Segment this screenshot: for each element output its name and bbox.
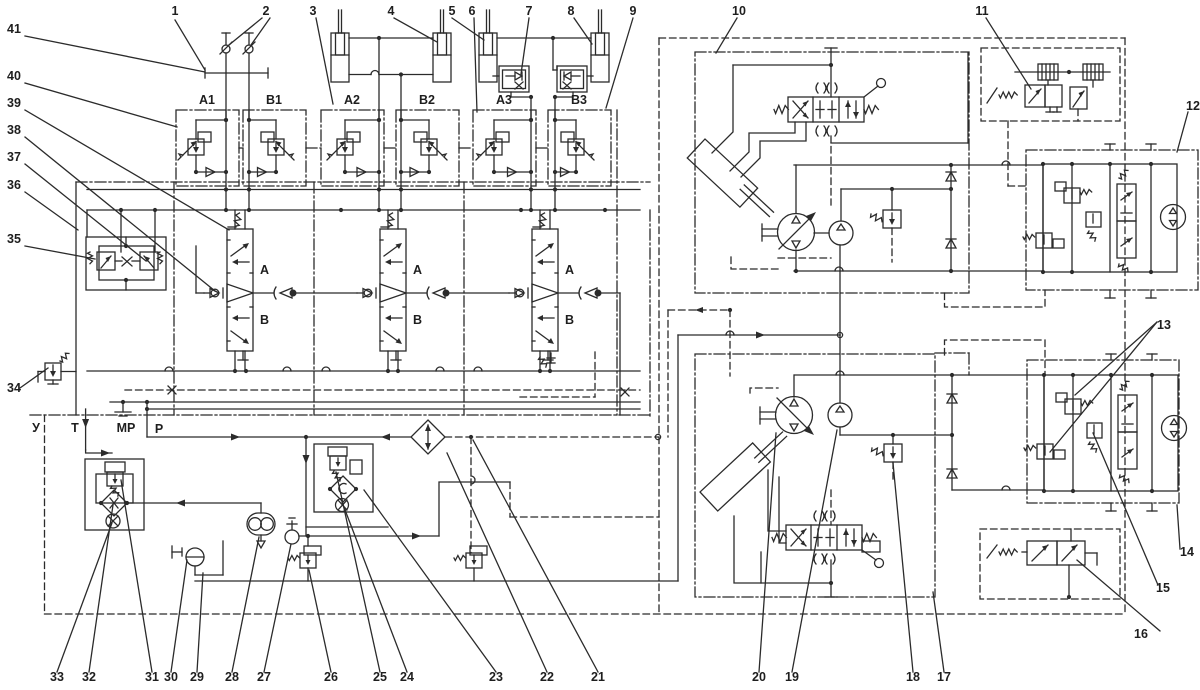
hydraulic motor item 12: [1161, 205, 1186, 230]
supply pipe bottom valve: [734, 516, 831, 583]
motor control box item 12: [1026, 150, 1198, 290]
svg-text:4: 4: [388, 4, 395, 18]
svg-text:34: 34: [7, 381, 21, 395]
pilot port circle: [655, 434, 660, 439]
svg-text:10: 10: [732, 4, 746, 18]
P supply bus: [147, 436, 411, 438]
closed port line item 1: [205, 72, 268, 74]
T port arrow: [85, 409, 87, 450]
solid pressure feed right: [678, 334, 840, 336]
return block items 31-33: [85, 459, 144, 530]
relief valve in section A2: [327, 132, 360, 160]
ball check valve item 2 right: [248, 33, 250, 45]
relief valve 3 in item 12: [1086, 212, 1101, 227]
swash cylinder top pump: [687, 139, 757, 207]
pilot branch dashed corner: [594, 352, 596, 397]
relief valve in section A3: [476, 132, 509, 160]
check valve right of V2: [427, 287, 429, 299]
wire rail to item 35: [86, 210, 88, 237]
valve section A3: [473, 110, 536, 186]
bus into item13: [952, 489, 1044, 491]
sensor line: [299, 535, 439, 537]
pilot stage left of V1: [211, 289, 219, 297]
drain link to bus: [935, 352, 969, 354]
svg-text:B: B: [413, 313, 422, 327]
pressure gauge item 29: [186, 548, 204, 566]
svg-text:1: 1: [172, 4, 179, 18]
pilot valve right item 37: [140, 252, 158, 270]
relief valve 2 in item 13: [1037, 444, 1053, 459]
terminals item 12: [1109, 144, 1111, 150]
svg-text:15: 15: [1156, 581, 1170, 595]
valve section B2: [396, 110, 459, 186]
svg-text:6: 6: [469, 4, 476, 18]
wire pilot row: [196, 292, 204, 294]
valve enclosure solid corner: [967, 53, 969, 143]
return line from flowmeter: [127, 502, 261, 504]
relief valve in section B2: [414, 132, 447, 160]
wire A1 feed: [225, 73, 227, 120]
wire B2 feed: [400, 75, 402, 121]
temperature sensor item 27: [285, 530, 299, 544]
drain riser from P bus: [305, 437, 307, 536]
bottom dashed boundary: [45, 613, 1126, 615]
wire cyl1-cyl2 upper: [349, 37, 433, 39]
check valve column top: [950, 165, 952, 271]
svg-text:8: 8: [568, 4, 575, 18]
spring top of V2: [386, 212, 395, 227]
svg-text:У: У: [32, 421, 40, 435]
section bottom bus: [87, 189, 640, 191]
drain rail y402: [110, 401, 640, 403]
check valve in section A2: [345, 171, 379, 173]
pilot unit item 35: [86, 237, 166, 290]
detent box bottom valve: [862, 541, 880, 552]
pump shaft bottom: [760, 411, 776, 413]
feed to left block: [86, 450, 112, 453]
directional spool valve V2: [380, 229, 406, 351]
two position valve in item 12: [1117, 184, 1136, 221]
pump pipes bottom: [768, 470, 786, 531]
wire cyl1-cyl2 lower: [349, 74, 371, 76]
drain item 23: [336, 499, 349, 512]
relief valve 3 in item 13: [1087, 423, 1102, 438]
pilot staple bottom: [945, 340, 1046, 375]
svg-text:A2: A2: [344, 93, 360, 107]
plugged port X right: [621, 388, 629, 396]
check valve in section A1: [196, 171, 226, 173]
spring top of V1: [233, 212, 242, 227]
valve section A1: [176, 110, 239, 186]
drain bottom of V1: [242, 351, 244, 360]
relief valve item 31: [105, 462, 125, 472]
valve section B1: [243, 110, 306, 186]
relief valve bottom pump item 18: [884, 444, 902, 462]
pilot valve item 16: [1027, 541, 1057, 565]
control valve top pump: [788, 97, 864, 122]
svg-text:A1: A1: [199, 93, 215, 107]
svg-text:35: 35: [7, 232, 21, 246]
block internal dividers: [173, 182, 175, 415]
svg-text:2: 2: [263, 4, 270, 18]
connector grids item 11: [1038, 64, 1058, 80]
check valve in section A3: [494, 171, 531, 173]
wires item 16: [1068, 565, 1070, 597]
relief valve in section A1: [178, 132, 211, 160]
pilot line from item 11: [1007, 121, 1009, 186]
top valve feed: [830, 48, 832, 97]
pilot drop to relief: [470, 437, 472, 553]
wires bottom pump group: [795, 374, 1043, 376]
svg-text:7: 7: [526, 4, 533, 18]
MP plug: [122, 402, 124, 412]
pilot line after filter: [445, 436, 658, 438]
P riser: [146, 402, 148, 437]
check valve right of V1: [274, 287, 276, 299]
centre position of V2: [380, 284, 406, 302]
directional spool valve V3: [532, 229, 558, 351]
svg-text:36: 36: [7, 178, 21, 192]
leader lines: [175, 20, 205, 70]
relief valve item 26 left: [300, 553, 316, 568]
control valve bottom pump: [786, 525, 862, 550]
valve section A2: [321, 110, 384, 186]
svg-text:A: A: [565, 263, 574, 277]
second pilot valve item 11: [1070, 87, 1087, 109]
relief valve in section B3: [561, 132, 594, 160]
pilot box item 16: [980, 529, 1120, 599]
main valve block border item 36: [75, 182, 77, 415]
return bus top pump: [794, 270, 1043, 272]
wires pilot checks to sections: [511, 92, 531, 97]
section link dashes: [239, 147, 243, 149]
cylinder C4: [591, 33, 609, 82]
pilot control box item 11: [981, 48, 1120, 121]
relief valve item 26 right: [466, 553, 482, 568]
plugged port X left: [168, 386, 176, 394]
relief valve 2 in item 12: [1036, 233, 1052, 248]
check valve column bottom: [951, 375, 953, 490]
svg-text:40: 40: [7, 69, 21, 83]
svg-text:13: 13: [1157, 318, 1171, 332]
drain bottom of V2: [395, 351, 397, 360]
U dashed line: [44, 415, 46, 614]
pilot drain bottom relief: [892, 462, 894, 482]
outer dashed enclosure right: [659, 37, 1125, 39]
wire A2 feed: [378, 38, 380, 120]
filter diamond item 24: [330, 476, 356, 502]
wire cyl3-cyl4 upper: [497, 37, 591, 39]
relief valve top pump: [883, 210, 901, 228]
check valve right of V3: [579, 287, 581, 299]
pump feed pipes top: [712, 65, 733, 153]
filter diamond item 32: [101, 490, 127, 516]
svg-text:41: 41: [7, 22, 21, 36]
svg-text:A3: A3: [496, 93, 512, 107]
svg-text:P: P: [155, 422, 163, 436]
svg-text:39: 39: [7, 96, 21, 110]
pump unit box item 17: [695, 354, 935, 597]
valve to pump pilot dashes: [830, 136, 832, 205]
pilot staple top: [945, 290, 1046, 307]
relief valve item 34: [45, 363, 61, 380]
svg-text:16: 16: [1134, 627, 1148, 641]
throttle X item 35: [122, 257, 132, 266]
lever bottom valve: [862, 550, 876, 560]
centre position of V1: [227, 284, 253, 302]
valve section B3: [548, 110, 611, 186]
main pump top item 10: [778, 214, 815, 251]
pilot check valve item 7: [499, 66, 529, 92]
pilot check valve item 8: [557, 66, 587, 92]
block lower rails: [87, 370, 640, 372]
pump unit box item 10: [695, 52, 969, 293]
check valve in section B1: [249, 171, 276, 173]
relief valve in section B1: [261, 132, 294, 160]
svg-text:5: 5: [449, 4, 456, 18]
check valve in section B2: [401, 171, 429, 173]
bypass box item 31: [96, 474, 133, 503]
port bus dash-dot: [30, 414, 650, 416]
lever top valve: [864, 86, 878, 97]
two position valve in item 13: [1118, 395, 1137, 432]
drain bus bottom: [195, 580, 678, 582]
svg-text:B: B: [565, 313, 574, 327]
wires top pump group: [794, 164, 1043, 166]
cylinder C1: [331, 33, 349, 82]
directional spool valve V1: [227, 229, 253, 351]
relief valve item 25: [328, 447, 347, 456]
svg-text:T: T: [71, 421, 79, 435]
svg-text:B2: B2: [419, 93, 435, 107]
wire B1 feed: [248, 73, 250, 120]
drain bottom of V3: [547, 351, 549, 360]
svg-text:14: 14: [1180, 545, 1194, 559]
line y527: [306, 526, 388, 528]
charge pump top: [829, 221, 853, 245]
svg-text:37: 37: [7, 150, 21, 164]
relief valve 1 in item 13: [1065, 399, 1081, 414]
spring top of V3: [538, 212, 547, 227]
svg-text:B: B: [260, 313, 269, 327]
terminals item 13: [1110, 354, 1112, 360]
centre position of V3: [532, 284, 558, 302]
spring and plug bottom of V3: [538, 356, 548, 369]
motor control box item 13: [1027, 360, 1179, 503]
relief valve 1 in item 12: [1064, 188, 1080, 203]
svg-text:3: 3: [310, 4, 317, 18]
svg-text:B1: B1: [266, 93, 282, 107]
dashed bracket above pump: [750, 388, 778, 393]
svg-text:A: A: [260, 263, 269, 277]
pilot stage left of V2: [364, 289, 372, 297]
cylinder C3: [479, 33, 497, 82]
pilot stage left of V3: [516, 289, 524, 297]
return block items 23-25: [314, 444, 373, 512]
pump shaft top: [762, 228, 778, 230]
pilot drain top relief: [891, 228, 893, 262]
lever valve item 11: [987, 88, 997, 103]
pilot valve left item 35: [97, 252, 115, 270]
svg-text:B3: B3: [571, 93, 587, 107]
charge pump bottom item 19: [828, 403, 852, 427]
swash cylinder bottom pump: [700, 443, 770, 511]
svg-text:A: A: [413, 263, 422, 277]
valve risers bottom: [830, 490, 832, 525]
svg-text:9: 9: [630, 4, 637, 18]
flow meter item 28: [247, 513, 275, 535]
svg-text:11: 11: [975, 4, 988, 18]
block supply rail: [87, 209, 640, 211]
svg-text:38: 38: [7, 123, 21, 137]
main pump bottom item 20: [776, 397, 813, 434]
filter item 21 diamond: [411, 420, 445, 454]
drain item 33: [106, 514, 120, 528]
check valve in section B3: [555, 171, 576, 173]
hydraulic motor item 13: [1162, 416, 1187, 441]
ball check valve item 2 left: [225, 33, 227, 45]
svg-text:12: 12: [1186, 99, 1200, 113]
pilot dashed from X port: [668, 309, 730, 311]
svg-text:MP: MP: [117, 421, 136, 435]
cylinder C2: [433, 33, 451, 82]
